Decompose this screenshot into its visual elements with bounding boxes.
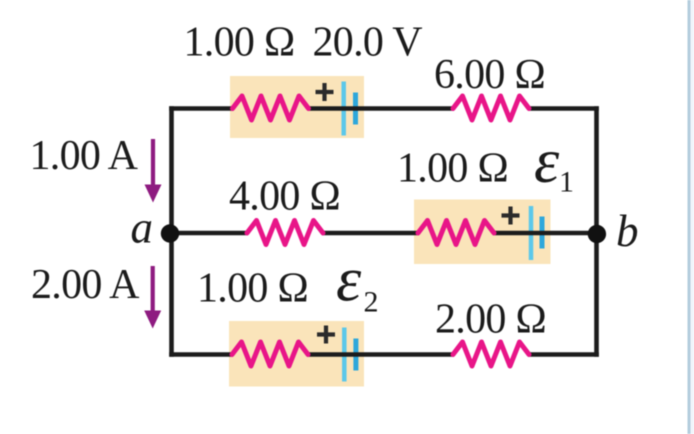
svg-text:1.00 A: 1.00 A (30, 133, 139, 179)
svg-text:2: 2 (364, 286, 379, 319)
plus sign battery B1 (316, 83, 334, 101)
highlight box battery E2 branch (229, 321, 364, 387)
wire bottom right segment (528, 352, 599, 357)
svg-text:ε: ε (534, 125, 560, 196)
svg-text:20.0 V: 20.0 V (313, 20, 423, 66)
svg-text:b: b (616, 206, 639, 256)
wire left vertical a-branch (169, 106, 174, 357)
svg-text:2.00 A: 2.00 A (31, 262, 140, 308)
node b junction dot (588, 225, 606, 243)
svg-text:a: a (131, 203, 154, 253)
battery B2 short plate (540, 217, 545, 249)
label 1.00 ohm middle (397, 146, 508, 192)
plus sign battery B2 (502, 207, 520, 225)
page right border band (688, 0, 694, 434)
wire middle center segment (322, 231, 419, 236)
svg-text:ε: ε (336, 244, 362, 315)
svg-text:1.00 Ω: 1.00 Ω (397, 146, 508, 192)
label 1.00 ohm bottom (197, 266, 308, 312)
current arrow 1.00 A (145, 139, 162, 203)
svg-text:1.00 Ω: 1.00 Ω (184, 20, 295, 66)
label 2.00 ohm (435, 297, 546, 343)
svg-text:6.00 Ω: 6.00 Ω (434, 52, 545, 98)
label 1.00 ohm top (184, 20, 295, 66)
plus sign battery B3 (317, 326, 335, 344)
current arrow 2.00 A (144, 266, 161, 329)
wire bottom middle segment through battery B3 (307, 352, 454, 357)
resistor R3 4.00 ohm (247, 221, 323, 245)
label 20.0 V (313, 20, 423, 66)
label EMF E1 (534, 125, 574, 199)
wire right vertical b-branch (594, 106, 599, 357)
resistor R1 1.00 ohm top (233, 96, 309, 120)
label 4.00 ohm (229, 174, 340, 220)
label 2.00 A (31, 262, 140, 308)
label 1.00 A (30, 133, 139, 179)
battery B1 short plate (353, 93, 358, 125)
wire bottom left segment (169, 352, 233, 357)
label node a (131, 203, 154, 253)
svg-text:1: 1 (559, 166, 574, 199)
svg-text:4.00 Ω: 4.00 Ω (229, 174, 340, 220)
resistor R6 2.00 ohm (453, 342, 529, 366)
battery B2 long plate (529, 206, 534, 260)
label EMF E2 (336, 244, 379, 319)
label node b (616, 206, 639, 256)
node a junction dot (161, 224, 179, 242)
highlight box battery E1 branch (414, 200, 551, 265)
svg-text:1.00 Ω: 1.00 Ω (197, 266, 308, 312)
wire top middle segment through battery B1 (308, 106, 455, 111)
wire middle right segment through battery B2 (493, 231, 597, 236)
resistor R5 1.00 ohm internal of E2 (232, 342, 308, 366)
wire top left segment (169, 106, 233, 111)
wire middle left segment (170, 231, 248, 236)
battery B3 short plate (353, 339, 358, 371)
resistor R4 1.00 ohm internal of E1 (418, 221, 494, 245)
battery B3 long plate (342, 328, 347, 382)
svg-text:2.00 Ω: 2.00 Ω (435, 297, 546, 343)
label 6.00 ohm (434, 52, 545, 98)
wire top right segment (528, 106, 599, 111)
battery B1 long plate (341, 82, 346, 136)
highlight box battery 20.0V branch (230, 76, 364, 138)
resistor R2 6.00 ohm (453, 96, 529, 120)
